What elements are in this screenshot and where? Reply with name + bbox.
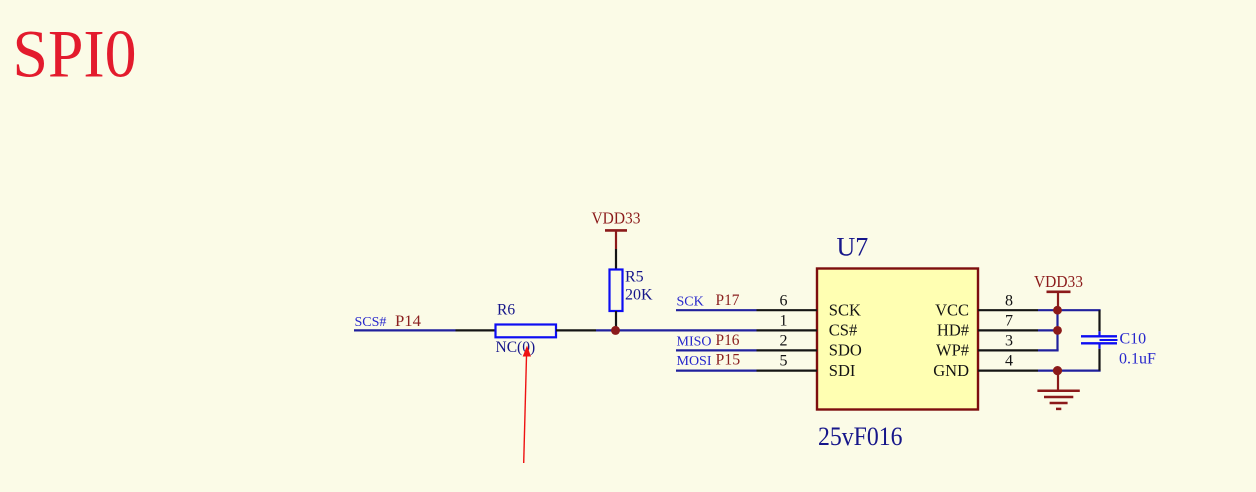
svg-text:SDO: SDO (829, 341, 862, 360)
svg-text:R5: R5 (625, 269, 644, 286)
svg-text:U7: U7 (837, 232, 869, 261)
svg-text:P14: P14 (395, 313, 421, 330)
pin 6 SCK (757, 293, 861, 320)
vertical tie wire VCC/HD#/WP# (1056, 310, 1058, 350)
svg-text:MOSI: MOSI (677, 354, 712, 369)
resistor R6 (body and pins) (456, 325, 597, 338)
junction dot GND tie (1053, 366, 1062, 375)
svg-text:25vF016: 25vF016 (818, 422, 903, 451)
svg-text:SCK: SCK (677, 295, 704, 310)
svg-text:4: 4 (1005, 353, 1013, 370)
svg-text:R6: R6 (497, 302, 515, 319)
svg-text:0.1uF: 0.1uF (1119, 351, 1156, 368)
svg-text:1: 1 (780, 313, 788, 330)
wire SCK net (676, 309, 757, 311)
pin 1 CS# (757, 313, 858, 340)
power symbol VDD33 (right) (1034, 272, 1083, 310)
red annotation arrow pointing at NC(0) (523, 346, 531, 464)
wire GND net to capacitor branch (1038, 370, 1101, 372)
wire VCC net to capacitor branch (1038, 309, 1101, 311)
pin 5 SDI (757, 353, 856, 380)
svg-text:P17: P17 (716, 292, 740, 309)
capacitor C10 (pins and plates) (1081, 310, 1118, 370)
wire HD# to tie (1038, 329, 1058, 331)
svg-text:P16: P16 (716, 332, 740, 349)
junction dot at R5 / CS# wire (611, 326, 620, 335)
pin 4 GND (933, 353, 1038, 380)
pin 3 WP# (936, 333, 1038, 360)
svg-text:20K: 20K (625, 287, 653, 304)
svg-text:P15: P15 (716, 351, 741, 368)
svg-text:SPI0: SPI0 (13, 16, 137, 92)
resistor R5 (body and pins) (610, 249, 623, 330)
IC U7 body (817, 269, 978, 410)
wire R6 to CS# pin (through junction) (596, 329, 757, 331)
wire WP# to tie (1038, 349, 1059, 351)
svg-text:SDI: SDI (829, 361, 856, 380)
wire MISO net (676, 349, 757, 351)
svg-text:VCC: VCC (935, 300, 969, 319)
svg-text:MISO: MISO (677, 334, 712, 349)
svg-text:3: 3 (1005, 333, 1013, 350)
svg-text:VDD33: VDD33 (1034, 272, 1083, 291)
svg-text:C10: C10 (1120, 331, 1147, 348)
wire SCS# net (left of R6) (354, 329, 456, 331)
svg-text:CS#: CS# (829, 321, 857, 340)
svg-text:WP#: WP# (936, 341, 969, 360)
pin 2 SDO (757, 333, 862, 360)
wire MOSI net (676, 370, 757, 372)
junction dot VCC/VDD33 (1053, 306, 1062, 315)
svg-text:HD#: HD# (937, 321, 969, 340)
pin 7 HD# (937, 313, 1038, 340)
svg-text:8: 8 (1005, 293, 1013, 310)
svg-text:2: 2 (780, 333, 788, 350)
svg-text:GND: GND (933, 361, 969, 380)
power symbol VDD33 (left, above R5) (592, 209, 641, 250)
svg-text:VDD33: VDD33 (592, 209, 641, 228)
pin 8 VCC (935, 293, 1038, 320)
svg-text:5: 5 (780, 353, 788, 370)
svg-text:6: 6 (780, 293, 788, 310)
ground symbol (power GND) (1037, 371, 1079, 409)
svg-text:SCK: SCK (829, 300, 861, 319)
svg-text:SCS#: SCS# (355, 315, 387, 330)
junction dot HD# tie (1053, 326, 1062, 335)
svg-text:7: 7 (1005, 313, 1013, 330)
